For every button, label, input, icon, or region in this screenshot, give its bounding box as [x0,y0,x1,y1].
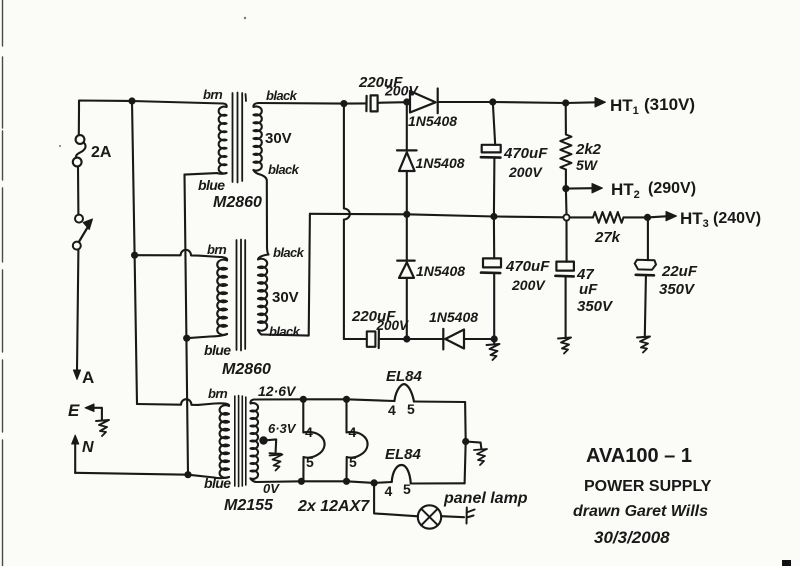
wire neutral lead [74,441,76,473]
wire return bus [185,175,189,475]
arrow A terminal [73,370,80,380]
svg-text:200V: 200V [384,83,419,99]
wire HT2 node to mid rail [565,189,568,215]
node HT2 junction [562,185,569,192]
capacitor C1 220uF [365,96,367,111]
svg-text:black: black [266,88,298,103]
svg-text:2A: 2A [91,144,112,161]
svg-text:N: N [82,439,94,456]
transformer T1 primary exit [217,172,227,175]
svg-text:30V: 30V [265,130,292,147]
svg-text:470uF: 470uF [505,258,550,275]
wire C3 bottom lead [493,159,496,217]
valve V2 12AX7 heater [347,399,368,481]
node live bus tap T2 [131,252,138,259]
node HT3 junction [644,214,651,221]
node heater top rail V2 [343,396,350,403]
transformer T3 secondary winding [250,400,258,479]
wire heater right drop [465,402,466,483]
wire HT1 to R1 [565,103,567,135]
ground C6 [637,337,650,353]
svg-text:30V: 30V [272,289,299,306]
ground heater [474,449,487,465]
svg-text:M2155: M2155 [224,497,274,514]
wire T2 primary feed with hop [135,250,220,257]
wire C5 top lead [565,221,567,262]
svg-text:EL84: EL84 [385,446,422,463]
transformer T2 secondary winding [258,255,268,331]
wire top rail left [258,102,366,105]
arrow HT2 output [566,187,594,190]
wire 6.3V tap lead [264,439,277,452]
transformer T2 secondary exit [258,330,262,335]
wire C6 bottom lead [645,277,646,337]
wire C6 top lead [647,217,649,260]
lamp LP1 panel lamp [418,505,441,528]
svg-text:AVA100 – 1: AVA100 – 1 [586,445,692,467]
wire R1 to HT2 node [565,170,567,189]
wire AC2 riser [262,214,310,336]
wire heater bottom rail [256,481,392,483]
wire T3 primary feed with hop [137,399,215,405]
wire T1 blue [185,173,218,175]
node D3 bottom junction [403,335,410,342]
node heater bottom rail V1 [298,478,305,485]
wire heater top rail [254,399,394,401]
capacitor C5 47uF [556,262,574,271]
node C3 top junction [489,98,496,105]
svg-text:5W: 5W [576,157,599,173]
wire mid rail to D3 [406,214,408,260]
svg-text:blue: blue [198,177,225,193]
ground earth chassis [96,420,109,436]
svg-text:30/3/2008: 30/3/2008 [594,528,670,547]
switch S1 contact bottom [73,242,81,250]
transformer T1 secondary exit [254,170,259,174]
svg-text:27k: 27k [594,229,621,246]
capacitor C4 470uF [483,258,501,267]
node return bus T2 blue [183,335,190,342]
svg-text:uF: uF [579,281,598,298]
scan speck [244,17,246,19]
svg-text:black: black [269,324,301,339]
ground doubler [487,344,500,360]
svg-text:200V: 200V [511,277,546,293]
svg-text:blue: blue [204,475,231,491]
wire C4 top lead [493,217,495,259]
svg-text:1N5408: 1N5408 [408,113,457,129]
diode D1 1N5408 [410,89,438,114]
wire top rail right [493,102,566,103]
svg-text:black: black [273,245,305,260]
node heater ground tap [462,438,469,445]
wire C5 bottom lead [565,278,567,338]
wire active lead [77,250,78,371]
wire heater top rail right [414,400,465,403]
svg-text:6·3V: 6·3V [268,421,297,436]
transformer T3 core [235,396,246,487]
wire ground stub [493,339,495,344]
svg-text:200V: 200V [508,164,543,180]
svg-text:M2860: M2860 [222,361,271,378]
resistor R2 27k [593,212,624,223]
node neutral-blue junction [184,471,191,478]
svg-text:brn: brn [207,242,227,257]
diode D4 1N5408 [443,329,464,350]
svg-text:(240V): (240V) [713,210,761,227]
ground C5 [558,338,571,354]
svg-text:brn: brn [203,87,223,102]
wire bottom rail left [344,338,367,340]
wire D1 to HT1 node [438,101,493,103]
svg-text:1N5408: 1N5408 [429,309,478,325]
wire C3 top lead [493,102,495,145]
wire mid rail to 27k [570,216,593,218]
svg-text:2x 12AX7: 2x 12AX7 [297,498,370,515]
transformer T1 secondary winding [253,103,261,171]
wire R2 to HT3 node [624,216,648,218]
node heater bottom lamp tap [371,479,378,486]
svg-text:1N5408: 1N5408 [416,263,465,279]
svg-text:M2860: M2860 [213,194,262,211]
node mid rail cap junction [490,213,497,220]
wire earth lead [90,408,102,420]
arrow HT1 output [566,101,597,104]
wire heater ground stub [466,442,482,450]
switch S1 contact top [75,215,83,223]
resistor R1 2k2 [560,135,571,170]
wire mains top [79,101,223,109]
wire secondary series link [259,174,269,255]
wire AC1 drop with hop [344,104,350,339]
capacitor C1 220uF plate lead [378,101,407,104]
wire lamp drop [374,483,418,516]
node AC1 tap [340,100,347,107]
svg-text:POWER SUPPLY: POWER SUPPLY [584,478,712,495]
wire lamp right lead [441,516,464,517]
node 6.3V tap [259,436,267,444]
svg-text:panel lamp: panel lamp [443,490,528,507]
wire heater bottom rail right [411,482,465,484]
svg-text:(310V): (310V) [644,95,695,114]
valve U2 EL84 heater [392,465,411,484]
valve U1 EL84 heater [394,384,414,401]
svg-text:A: A [82,368,94,387]
transformer T1 core [233,93,247,183]
ground 6.3V tap [269,453,282,470]
wire C4 bottom lead [493,275,495,340]
svg-text:350V: 350V [577,298,614,315]
wire D2 to mid rail [406,171,408,214]
svg-text:(290V): (290V) [648,180,696,197]
svg-text:E: E [68,401,80,420]
svg-text:4: 4 [305,424,313,440]
arrow E terminal [85,404,94,412]
node ground junction [491,335,498,342]
wire D4 to ground node [464,338,494,340]
svg-text:0V: 0V [263,481,280,496]
transformer T2 primary exit [210,334,227,337]
svg-text:black: black [268,162,300,177]
svg-text:blue: blue [204,342,231,358]
wire T2 blue [187,337,210,339]
svg-text:5: 5 [306,454,314,470]
svg-text:12·6V: 12·6V [258,383,297,399]
wire D3 to bottom rail [406,278,408,339]
svg-text:200V: 200V [376,318,410,333]
valve V1 12AX7 heater [303,399,324,481]
capacitor C2 220uF [367,331,376,346]
node mid rail diode junction [403,211,410,218]
svg-text:350V: 350V [659,281,696,298]
ground lamp return [467,508,475,524]
wire neutral rail [75,473,214,478]
capacitor C6 22uF [635,260,656,270]
node heater bottom rail V2 [343,478,350,485]
wire Y to D2 [406,102,408,150]
wire D4 anode link [407,338,443,340]
arrow HT3 output [648,216,669,217]
wire middle rail [310,214,563,218]
fuse F1 2A [78,108,80,135]
capacitor C3 470uF [482,145,501,153]
svg-text:2k2: 2k2 [575,141,602,158]
transformer T3 primary exit [214,477,229,478]
page edge scan artifact [2,0,4,566]
svg-text:5: 5 [349,454,357,470]
node top-left junction [128,97,135,104]
node heater top rail V1 [300,396,307,403]
node doubler Y junction [403,98,410,105]
svg-text:1N5408: 1N5408 [416,155,465,171]
wire C2 to D4 node [380,338,407,340]
transformer T3 primary winding [215,403,230,478]
svg-text:4: 4 [388,402,396,418]
svg-text:4: 4 [349,424,357,440]
transformer T2 primary winding [217,257,227,335]
diode D3 1N5408 [397,261,415,278]
diode D2 1N5408 [397,150,417,171]
svg-text:brn: brn [208,386,228,401]
node HT1 junction [562,99,569,106]
transformer T2 core [237,240,246,351]
transformer T1 primary winding [219,104,227,174]
node HT2 tie circle [563,214,569,220]
wire live bus [132,101,137,404]
arrow N terminal [72,435,79,444]
switch S1 blade [79,228,88,243]
svg-text:5: 5 [407,401,415,417]
svg-text:470uF: 470uF [503,145,548,162]
svg-text:EL84: EL84 [386,368,423,385]
svg-text:22uF: 22uF [661,263,698,280]
transformer T3 secondary exit [251,479,257,483]
svg-text:4: 4 [385,483,393,499]
svg-text:drawn Garet Wills: drawn Garet Wills [573,503,708,520]
